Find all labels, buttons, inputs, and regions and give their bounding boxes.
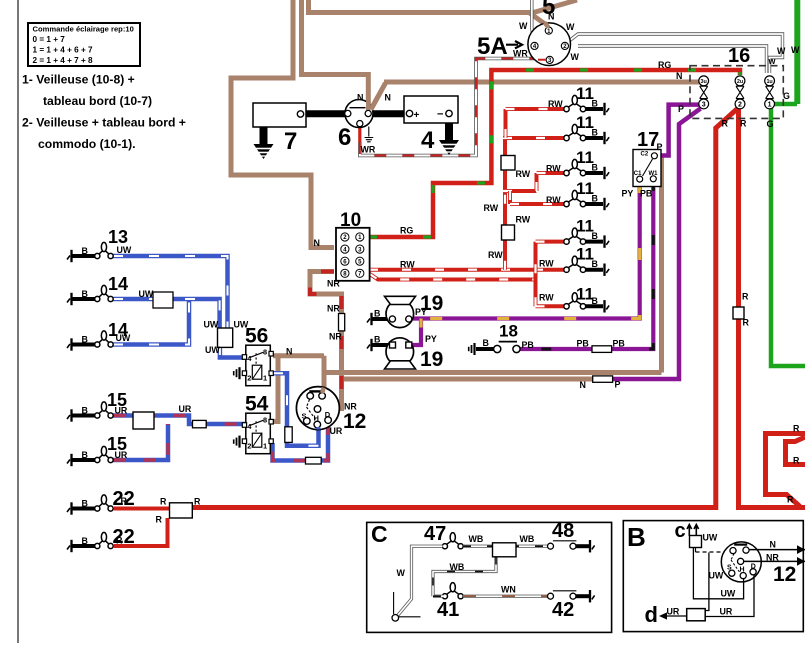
svg-text:RW: RW — [516, 169, 531, 179]
svg-text:B: B — [592, 163, 598, 173]
svg-text:+: + — [414, 110, 420, 121]
svg-text:RW: RW — [400, 259, 415, 269]
svg-text:3: 3 — [702, 102, 706, 109]
svg-text:G: G — [783, 91, 790, 101]
svg-text:UW: UW — [205, 345, 220, 355]
svg-text:48: 48 — [552, 520, 574, 542]
svg-text:W: W — [397, 568, 406, 578]
svg-text:UW: UW — [721, 589, 736, 599]
svg-text:W: W — [777, 46, 786, 56]
svg-text:N: N — [314, 238, 320, 248]
svg-text:12: 12 — [773, 563, 796, 586]
svg-text:4: 4 — [421, 127, 435, 154]
svg-text:RG: RG — [400, 226, 413, 236]
svg-text:UW: UW — [139, 289, 154, 299]
svg-text:RW: RW — [484, 203, 499, 213]
svg-text:PY: PY — [622, 189, 634, 199]
svg-text:54: 54 — [245, 393, 269, 416]
svg-text:B: B — [82, 289, 88, 299]
svg-text:RW: RW — [539, 259, 554, 269]
svg-text:W1: W1 — [649, 171, 659, 177]
svg-text:RW: RW — [516, 215, 531, 225]
svg-text:B: B — [82, 246, 88, 256]
svg-text:Commande éclairage rep:10: Commande éclairage rep:10 — [33, 25, 134, 34]
svg-text:2- Veilleuse + tableau bord +: 2- Veilleuse + tableau bord + — [22, 116, 186, 130]
svg-text:N: N — [286, 347, 292, 357]
svg-text:−: − — [437, 109, 443, 121]
svg-text:RW: RW — [488, 250, 503, 260]
svg-text:1 = 1 + 4 + 6 + 7: 1 = 1 + 4 + 6 + 7 — [33, 46, 94, 55]
svg-text:2: 2 — [738, 102, 742, 109]
svg-text:2: 2 — [247, 374, 251, 383]
svg-text:B: B — [592, 194, 598, 204]
svg-text:B: B — [82, 406, 88, 416]
svg-text:D: D — [325, 410, 331, 419]
svg-text:RW: RW — [546, 195, 561, 205]
svg-text:UW: UW — [116, 333, 131, 343]
svg-text:UR: UR — [667, 607, 680, 617]
svg-text:N: N — [676, 71, 682, 81]
svg-text:R: R — [742, 292, 749, 302]
svg-text:47: 47 — [424, 523, 446, 545]
svg-text:B: B — [592, 99, 598, 109]
svg-text:S: S — [302, 412, 307, 421]
svg-text:commodo (10-1).: commodo (10-1). — [38, 137, 136, 151]
svg-text:C: C — [371, 521, 388, 547]
svg-text:P: P — [615, 380, 621, 390]
svg-text:N: N — [357, 93, 363, 103]
svg-text:WR: WR — [513, 49, 528, 59]
svg-text:B: B — [483, 338, 489, 348]
svg-text:UW: UW — [234, 320, 249, 330]
svg-text:B: B — [82, 499, 88, 509]
svg-text:UR: UR — [115, 450, 128, 460]
svg-text:P: P — [657, 142, 663, 152]
svg-text:P: P — [678, 104, 684, 114]
svg-text:42: 42 — [552, 599, 574, 621]
svg-text:B: B — [374, 309, 380, 319]
svg-text:6: 6 — [338, 124, 351, 151]
svg-text:B: B — [82, 450, 88, 460]
svg-text:R: R — [156, 515, 163, 525]
svg-text:UW: UW — [117, 245, 132, 255]
svg-text:B: B — [592, 296, 598, 306]
svg-text:C1: C1 — [634, 171, 642, 177]
svg-text:R: R — [740, 119, 747, 129]
svg-text:1: 1 — [263, 374, 267, 383]
svg-text:RW: RW — [548, 99, 563, 109]
svg-text:UW: UW — [204, 320, 219, 330]
svg-text:B: B — [592, 231, 598, 241]
svg-text:R: R — [793, 456, 800, 466]
svg-text:R: R — [116, 536, 123, 546]
svg-text:R: R — [194, 497, 201, 507]
svg-text:B: B — [82, 335, 88, 345]
svg-text:PB: PB — [522, 340, 534, 350]
svg-text:3u: 3u — [701, 79, 707, 85]
svg-text:19: 19 — [420, 348, 443, 371]
svg-text:41: 41 — [437, 599, 459, 621]
svg-text:W: W — [519, 21, 528, 31]
svg-text:NR: NR — [327, 279, 340, 289]
svg-text:PB: PB — [640, 189, 652, 199]
svg-text:UR: UR — [720, 607, 733, 617]
svg-text:G: G — [767, 119, 774, 129]
svg-text:w: w — [768, 56, 776, 66]
svg-text:NR: NR — [329, 332, 342, 342]
svg-text:S: S — [727, 565, 732, 572]
svg-text:WB: WB — [450, 562, 465, 572]
svg-text:12: 12 — [343, 410, 366, 433]
svg-text:UR: UR — [115, 406, 128, 416]
svg-text:R: R — [722, 119, 729, 129]
svg-text:R: R — [793, 424, 800, 434]
svg-text:NR: NR — [327, 304, 340, 314]
svg-text:18: 18 — [499, 322, 518, 341]
svg-text:RW: RW — [546, 164, 561, 174]
svg-text:5A: 5A — [477, 33, 508, 60]
svg-text:16: 16 — [728, 45, 750, 67]
svg-text:tableau bord (10-7): tableau bord (10-7) — [43, 94, 152, 108]
svg-text:NR: NR — [766, 553, 779, 563]
svg-text:RW: RW — [539, 293, 554, 303]
svg-text:14: 14 — [108, 274, 128, 294]
svg-text:B: B — [592, 259, 598, 269]
svg-text:13: 13 — [108, 227, 128, 247]
svg-text:10: 10 — [340, 210, 361, 231]
svg-text:1: 1 — [768, 102, 772, 109]
svg-text:WR: WR — [361, 145, 376, 155]
svg-text:UR: UR — [330, 426, 343, 436]
svg-text:1- Veilleuse (10-8) +: 1- Veilleuse (10-8) + — [22, 73, 135, 87]
svg-text:PB: PB — [613, 339, 625, 349]
svg-text:N: N — [770, 540, 776, 550]
svg-text:2u: 2u — [737, 79, 743, 85]
svg-text:B: B — [592, 128, 598, 138]
svg-text:H: H — [314, 414, 319, 423]
svg-text:N: N — [580, 380, 586, 390]
svg-text:N: N — [548, 12, 554, 22]
svg-text:1u: 1u — [766, 79, 772, 85]
svg-text:c: c — [675, 520, 686, 542]
svg-text:0 = 1 + 7: 0 = 1 + 7 — [33, 35, 66, 44]
svg-text:2 = 1 + 4 + 7 + 8: 2 = 1 + 4 + 7 + 8 — [33, 56, 94, 65]
svg-text:W: W — [791, 45, 800, 55]
svg-text:UW: UW — [703, 533, 718, 543]
svg-text:RG: RG — [658, 60, 671, 70]
svg-text:7: 7 — [284, 128, 297, 155]
svg-text:N: N — [385, 93, 391, 103]
svg-text:W: W — [571, 52, 580, 62]
svg-text:R: R — [787, 495, 794, 505]
svg-text:WN: WN — [501, 585, 516, 595]
svg-text:UW: UW — [709, 571, 724, 581]
svg-text:H: H — [740, 567, 745, 574]
svg-text:D: D — [751, 564, 756, 571]
svg-text:56: 56 — [245, 325, 268, 348]
svg-text:NR: NR — [344, 402, 357, 412]
svg-text:WB: WB — [520, 534, 535, 544]
svg-text:B: B — [82, 536, 88, 546]
svg-text:R: R — [160, 497, 167, 507]
svg-text:W: W — [566, 22, 575, 32]
svg-text:WB: WB — [469, 534, 484, 544]
svg-text:R: R — [743, 318, 750, 328]
svg-text:d: d — [645, 602, 658, 627]
svg-text:C2: C2 — [641, 151, 649, 157]
svg-text:PY: PY — [415, 307, 427, 317]
svg-text:2: 2 — [247, 442, 251, 451]
svg-text:1: 1 — [263, 442, 267, 451]
svg-text:R: R — [121, 496, 128, 506]
svg-text:PB: PB — [577, 339, 589, 349]
svg-text:B: B — [374, 335, 380, 345]
svg-text:B: B — [627, 522, 646, 552]
svg-text:PY: PY — [425, 334, 437, 344]
svg-text:UR: UR — [179, 404, 192, 414]
